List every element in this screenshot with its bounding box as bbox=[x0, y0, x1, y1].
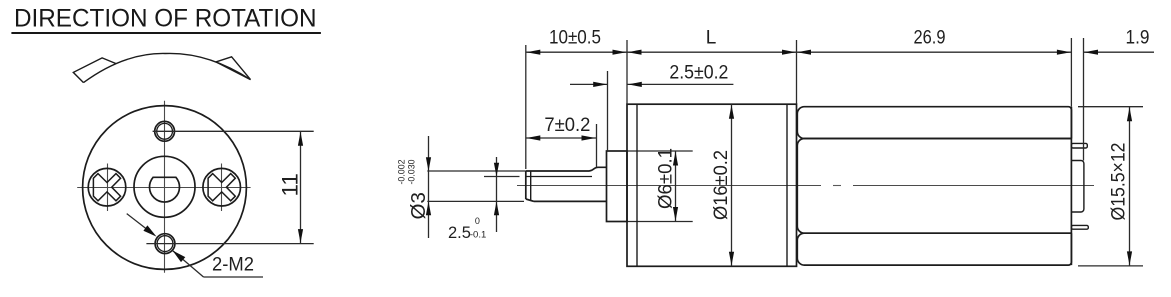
bottom terminal bbox=[1071, 225, 1088, 229]
top terminal bbox=[1071, 143, 1087, 148]
boss top extension (dia6) bbox=[627, 150, 693, 152]
shaft circle with D-flat bbox=[149, 177, 179, 202]
left screw circle bbox=[88, 168, 126, 206]
svg-text:L: L bbox=[706, 28, 717, 49]
shaft flat top line + extension bbox=[427, 170, 526, 172]
shaft bottom line bbox=[534, 200, 607, 202]
svg-text:7±0.2: 7±0.2 bbox=[544, 115, 590, 136]
ext line gearbox face top bbox=[626, 40, 628, 104]
ext line shaft tip bbox=[525, 45, 527, 169]
dim 2.5-0.1 flat bbox=[496, 157, 498, 232]
bearing bushing boss bbox=[607, 151, 628, 222]
bearing boss circle bbox=[134, 156, 195, 217]
gearbox rear joint line bbox=[786, 104, 788, 266]
svg-text:Ø16±0.2: Ø16±0.2 bbox=[711, 150, 732, 220]
right screw centerline bbox=[221, 164, 223, 212]
dim 7+-0.2 bbox=[596, 124, 598, 167]
gearbox face outer circle bbox=[83, 106, 247, 270]
ext line terminal base bbox=[1083, 38, 1085, 161]
dim 2.5+-0.2 bbox=[607, 71, 609, 151]
dim L bbox=[627, 51, 797, 53]
dim dia16 bbox=[731, 104, 733, 266]
svg-text:1.9: 1.9 bbox=[1126, 27, 1150, 48]
svg-text:Ø3: Ø3 bbox=[407, 192, 430, 219]
svg-text:-0.1: -0.1 bbox=[470, 229, 486, 240]
svg-text:2.5±0.2: 2.5±0.2 bbox=[669, 62, 728, 83]
rotation arrow head bbox=[216, 57, 251, 80]
right screw cross bbox=[208, 174, 235, 201]
dim 11 line bbox=[300, 131, 302, 243]
svg-text:26.9: 26.9 bbox=[914, 27, 946, 48]
svg-text:Ø6±0.1: Ø6±0.1 bbox=[656, 148, 677, 209]
side view centerline bbox=[517, 185, 1094, 187]
shaft bottom extension line bbox=[427, 200, 524, 202]
svg-text:DIRECTION OF ROTATION: DIRECTION OF ROTATION bbox=[14, 4, 317, 32]
dim 1.9 bbox=[1084, 51, 1155, 53]
dim 26.9 bbox=[797, 51, 1072, 53]
svg-text:11: 11 bbox=[278, 173, 303, 196]
left screw cross bbox=[93, 174, 120, 201]
dim 11 bottom extension line bbox=[146, 243, 313, 245]
svg-text:2.5: 2.5 bbox=[448, 224, 471, 242]
flat edge extension line bbox=[484, 176, 520, 178]
2-M2 leader arrow upper bbox=[127, 214, 153, 234]
shaft tip chamfer edge bbox=[530, 172, 532, 201]
dim dia6 bbox=[675, 151, 677, 222]
2-M2 leader landing bbox=[204, 276, 264, 278]
shaft tip face bbox=[525, 171, 527, 199]
svg-text:10±0.5: 10±0.5 bbox=[549, 28, 601, 49]
ext line can face bbox=[1070, 38, 1072, 107]
motor can right face bbox=[1070, 107, 1072, 265]
motor can top lobe bbox=[797, 107, 1071, 139]
title underline bbox=[11, 32, 321, 34]
boss bottom extension (dia6) bbox=[627, 221, 693, 223]
rotation arrow arc bbox=[84, 53, 251, 82]
rotation arrow tail bbox=[73, 58, 116, 83]
right screw circle bbox=[203, 168, 241, 206]
ext line gearbox/can joint bbox=[796, 40, 798, 104]
2-M2 leader arrow lower bbox=[173, 251, 204, 278]
svg-text:Ø15.5×12: Ø15.5×12 bbox=[1109, 143, 1130, 221]
svg-text:2-M2: 2-M2 bbox=[212, 254, 254, 275]
face view horizontal centerline bbox=[77, 187, 250, 189]
svg-text:-0.030: -0.030 bbox=[407, 160, 418, 185]
gearbox body bbox=[627, 104, 797, 266]
endcap boss bbox=[1071, 161, 1084, 213]
left screw centerline bbox=[107, 164, 109, 212]
motor can middle section bbox=[797, 139, 1071, 234]
dim dia15.5x12 bbox=[1078, 106, 1143, 108]
bottom M2 hole bbox=[155, 234, 175, 254]
dim 11 top extension line bbox=[153, 130, 314, 132]
top M2 hole bbox=[155, 121, 175, 141]
dim 10+-0.5 bbox=[526, 51, 627, 53]
motor can bottom lobe bbox=[797, 233, 1071, 265]
dim dia3 shaft bbox=[428, 136, 430, 238]
svg-text:0: 0 bbox=[475, 216, 480, 226]
gearbox front plate line bbox=[636, 104, 638, 266]
shaft tip bottom chamfer bbox=[526, 199, 534, 201]
shaft flat edge line bbox=[526, 176, 592, 178]
face view vertical centerline bbox=[164, 101, 166, 273]
